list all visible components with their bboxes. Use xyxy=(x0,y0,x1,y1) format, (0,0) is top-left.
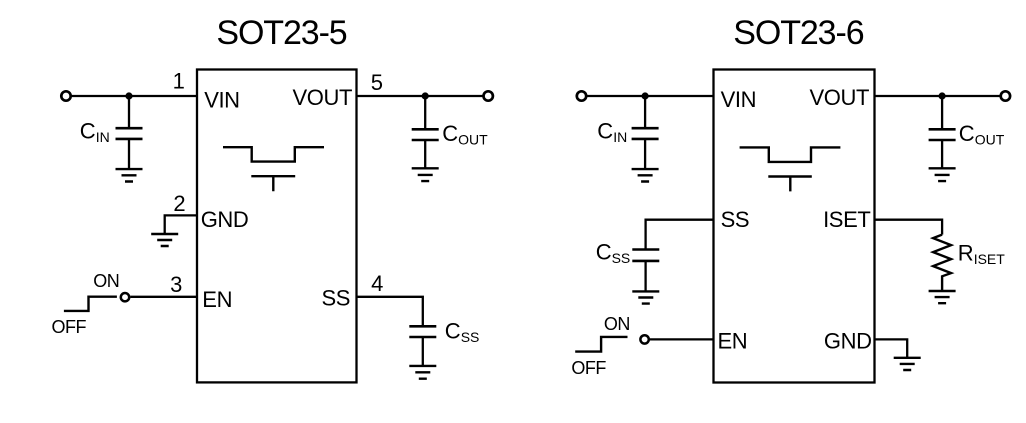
svg-text:2: 2 xyxy=(173,191,185,216)
svg-text:VIN: VIN xyxy=(721,87,756,112)
node VIN junction (left) xyxy=(125,92,132,99)
svg-text:ON: ON xyxy=(604,314,630,334)
wire CIN to ground (right) xyxy=(644,139,646,169)
svg-text:VOUT: VOUT xyxy=(809,85,869,110)
svg-text:SS: SS xyxy=(721,207,750,232)
transistor pass PMOS (right) xyxy=(740,147,841,162)
ground CSS (right) xyxy=(632,291,659,303)
capacitor COUT (left) xyxy=(412,129,439,140)
transistor gate (right) xyxy=(768,177,812,192)
svg-text:SOT23-5: SOT23-5 xyxy=(216,14,346,52)
svg-text:VOUT: VOUT xyxy=(292,85,352,110)
wire CIN to ground (left) xyxy=(128,139,130,169)
svg-text:3: 3 xyxy=(170,272,182,297)
ground GND pin (left) xyxy=(151,234,178,246)
wire SS pin (left) xyxy=(356,297,423,327)
wire CSS to ground (right) xyxy=(644,261,646,292)
ground CSS (left) xyxy=(409,366,436,379)
wire VIN input rail (right) xyxy=(587,95,715,97)
wire VIN input rail (left) xyxy=(72,95,198,97)
svg-text:EN: EN xyxy=(718,329,748,354)
svg-text:SOT23-6: SOT23-6 xyxy=(733,14,863,52)
svg-text:OFF: OFF xyxy=(571,358,606,378)
svg-text:GND: GND xyxy=(824,329,872,354)
wire COUT to ground (right) xyxy=(941,140,943,168)
transistor gate (left) xyxy=(251,176,295,191)
ground COUT (right) xyxy=(929,168,956,181)
wire ISET pin (right) xyxy=(874,220,943,235)
resistor RISET xyxy=(933,235,951,291)
terminal output (right) xyxy=(1001,91,1010,100)
svg-text:VIN: VIN xyxy=(204,87,239,112)
svg-text:EN: EN xyxy=(202,287,232,312)
node VIN junction (right) xyxy=(642,92,649,99)
wire COUT stem (left) xyxy=(424,96,426,129)
wire COUT stem (right) xyxy=(941,96,943,129)
transistor pass PMOS (left) xyxy=(223,147,324,161)
IC U2 (SOT23-6 box) xyxy=(714,70,875,383)
wire VOUT output rail (right) xyxy=(874,95,1001,97)
svg-text:5: 5 xyxy=(371,70,383,95)
ground COUT (left) xyxy=(412,168,439,181)
svg-text:OFF: OFF xyxy=(52,317,87,337)
capacitor COUT (right) xyxy=(929,129,956,140)
wire CSS to ground (left) xyxy=(422,337,424,366)
terminal input (left) xyxy=(61,91,70,100)
wire VOUT output rail (left) xyxy=(356,95,483,97)
wire CIN stem (right) xyxy=(644,96,646,128)
switch circle EN (right) xyxy=(640,335,648,343)
IC U1 (SOT23-5 box) xyxy=(197,70,357,383)
svg-text:1: 1 xyxy=(173,69,185,94)
wire GND pin (right) xyxy=(874,339,908,357)
wire EN (right) xyxy=(650,338,715,340)
terminal input (right) xyxy=(577,91,586,100)
svg-text:ON: ON xyxy=(93,271,119,291)
terminal output (left) xyxy=(484,91,493,100)
switch circle EN (left) xyxy=(121,293,129,301)
wire SS pin (right) xyxy=(646,220,715,250)
ground CIN (right) xyxy=(632,169,659,181)
svg-text:SS: SS xyxy=(321,286,350,311)
switch waveform EN (right) xyxy=(575,337,627,352)
capacitor CIN (left) xyxy=(116,128,143,139)
ground RISET xyxy=(929,291,956,303)
wire CIN stem (left) xyxy=(128,96,130,128)
ground GND pin (right) xyxy=(894,358,921,370)
node VOUT junction (left) xyxy=(422,92,429,99)
ground CIN (left) xyxy=(116,169,143,181)
svg-text:GND: GND xyxy=(201,207,249,232)
svg-text:4: 4 xyxy=(371,271,383,296)
wire COUT to ground (left) xyxy=(424,140,426,168)
capacitor CSS (right) xyxy=(632,250,659,261)
wire EN (left) xyxy=(130,296,198,298)
capacitor CSS (left) xyxy=(409,326,436,337)
node VOUT junction (right) xyxy=(939,92,946,99)
wire GND pin (left) xyxy=(165,215,198,234)
switch waveform EN (left) xyxy=(64,297,117,311)
svg-text:ISET: ISET xyxy=(823,207,870,232)
capacitor CIN (right) xyxy=(632,128,659,139)
